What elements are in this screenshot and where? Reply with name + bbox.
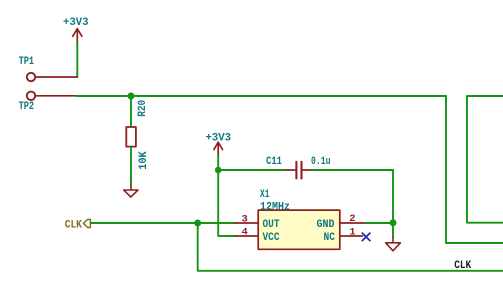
wire junction down and bottom bus	[198, 223, 503, 271]
testpoint TP1	[19, 56, 78, 81]
power +3V3 PWR1	[63, 17, 89, 43]
svg-text:10K: 10K	[138, 151, 150, 170]
svg-text:2: 2	[349, 213, 355, 225]
resistor R20	[126, 127, 136, 147]
wire +3V3 to junction	[217, 156, 219, 170]
capacitor C11	[266, 156, 331, 179]
ground GND1	[124, 184, 138, 197]
svg-text:VCC: VCC	[263, 232, 280, 244]
wire junction to R20	[130, 96, 132, 127]
svg-text:TP2: TP2	[19, 101, 34, 113]
wire GND pin to junction	[366, 222, 393, 224]
wire right drop to bottom-right	[446, 96, 503, 243]
svg-text:3: 3	[242, 214, 248, 226]
wire junction to ground	[392, 223, 394, 237]
svg-text:12MHz: 12MHz	[260, 201, 290, 213]
wire R20 to ground	[130, 147, 132, 184]
svg-text:R20: R20	[137, 100, 149, 117]
svg-text:GND: GND	[317, 219, 335, 231]
wire CLK to junction	[91, 222, 198, 224]
wire main bus y=96	[77, 95, 446, 97]
svg-text:+3V3: +3V3	[63, 17, 89, 29]
pin 4 VCC	[235, 235, 258, 237]
svg-text:CLK: CLK	[65, 219, 82, 231]
no-connect X on pin 1	[362, 233, 370, 241]
pin 3 OUT	[235, 222, 258, 224]
junction R20 top	[128, 93, 135, 100]
svg-text:NC: NC	[324, 232, 336, 244]
svg-text:4: 4	[242, 226, 248, 238]
svg-text:X1: X1	[260, 189, 270, 201]
svg-text:TP1: TP1	[19, 56, 35, 68]
svg-text:OUT: OUT	[263, 219, 280, 231]
pin 1 NC	[340, 235, 363, 237]
ground GND2	[386, 237, 401, 251]
hierarchical label CLK	[65, 219, 91, 231]
svg-text:0.1u: 0.1u	[311, 156, 331, 168]
testpoint TP2	[19, 92, 77, 113]
wire junction to OUT pin	[198, 222, 235, 224]
svg-text:1: 1	[349, 226, 355, 238]
svg-text:C11: C11	[266, 156, 282, 168]
power +3V3 PWR2	[206, 133, 232, 157]
junction CLK node	[194, 220, 201, 227]
junction GND node	[390, 219, 397, 226]
pin 2 GND	[340, 222, 366, 224]
oscillator X1 body	[258, 210, 340, 249]
wire junction down to VCC	[218, 170, 235, 236]
wire junction to C11	[218, 169, 285, 171]
svg-text:CLK: CLK	[454, 260, 471, 272]
junction at C11 left	[215, 167, 222, 174]
wire second net from right edge	[467, 96, 503, 223]
wire +3V3 to TP1	[76, 43, 78, 77]
wire C11 to gnd corner	[312, 170, 393, 223]
